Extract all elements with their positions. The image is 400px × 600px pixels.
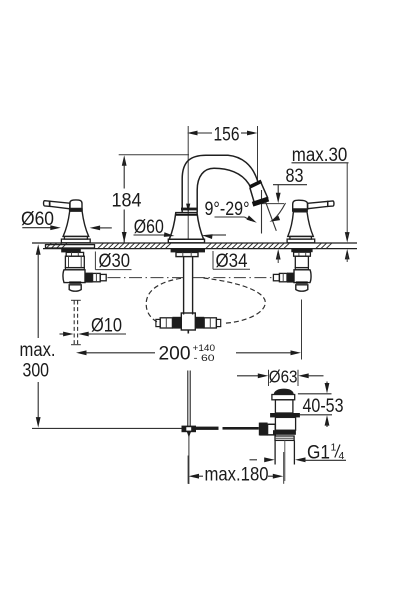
right valve neck xyxy=(294,252,311,256)
tee left hex xyxy=(160,318,172,328)
spout tube left wall xyxy=(183,257,185,315)
spout outlet face xyxy=(253,199,269,204)
left valve block xyxy=(63,270,85,283)
right valve body xyxy=(295,256,308,267)
waste ring 1 xyxy=(273,430,296,435)
linkage white block xyxy=(267,424,275,435)
tee bottom stub xyxy=(187,330,189,334)
dimension max300 xyxy=(20,244,56,427)
angle arc arrow xyxy=(270,203,286,222)
left valve body xyxy=(65,256,84,267)
right valve hose tip xyxy=(273,274,279,280)
svg-text:4: 4 xyxy=(339,450,345,462)
dimension 40-53 xyxy=(298,382,344,428)
angle leader arrow xyxy=(215,216,257,223)
left valve ring xyxy=(65,268,84,270)
svg-text:40-53: 40-53 xyxy=(303,396,344,417)
tee right hex xyxy=(204,318,216,328)
spout centerline xyxy=(186,126,190,240)
left valve neck xyxy=(66,252,83,256)
extension line right valve xyxy=(301,300,303,360)
rod lower line xyxy=(187,432,191,484)
dimension 184 xyxy=(112,155,142,242)
tee left nut xyxy=(172,317,181,329)
svg-text:Ø63: Ø63 xyxy=(269,366,298,386)
reference line bottom xyxy=(32,427,188,429)
spout base plate xyxy=(168,239,204,243)
extension line spout top xyxy=(119,154,189,156)
label dia10 xyxy=(60,316,127,337)
svg-text:Ø10: Ø10 xyxy=(91,316,122,337)
right valve bottom nut xyxy=(296,283,308,292)
svg-text:- 60: - 60 xyxy=(194,353,215,364)
svg-text:G1: G1 xyxy=(307,442,330,463)
svg-text:Ø60: Ø60 xyxy=(21,209,54,230)
label angle 9-29 xyxy=(205,199,250,220)
right valve hose hex xyxy=(279,273,287,281)
left handle base step xyxy=(64,236,87,239)
right handle dark ring xyxy=(292,209,308,212)
svg-text:Ø30: Ø30 xyxy=(99,251,131,272)
right valve block xyxy=(294,270,311,283)
tee right nut xyxy=(195,317,204,329)
label dia60 left xyxy=(21,209,112,231)
deck bottom line xyxy=(43,248,357,250)
dimension dia63 xyxy=(237,366,324,386)
svg-text:max.: max. xyxy=(20,340,56,361)
label G1-1/4 xyxy=(250,442,347,464)
extension line right of 156 xyxy=(257,126,259,185)
deck hatching xyxy=(46,243,332,248)
spout inner curve xyxy=(197,168,250,212)
left valve flange xyxy=(61,249,81,253)
right valve hose nut xyxy=(287,273,294,283)
right valve ring xyxy=(295,268,308,270)
left valve washer xyxy=(46,245,95,248)
hose center line left xyxy=(108,277,184,279)
linkage bar 1 xyxy=(196,427,219,430)
label dia30 xyxy=(95,251,131,272)
mounting stud dashed xyxy=(71,300,81,344)
svg-text:max.180: max.180 xyxy=(205,465,269,486)
tee right tip xyxy=(216,319,220,326)
waste centerline xyxy=(284,440,286,481)
hose center line right xyxy=(193,277,273,279)
waste stem xyxy=(275,400,293,413)
deck top line xyxy=(32,242,357,244)
waste left black block xyxy=(260,423,268,436)
angle vertical ray xyxy=(261,190,263,234)
dimension max180 xyxy=(188,452,284,486)
left handle cap xyxy=(70,200,82,209)
right handle base plate xyxy=(287,239,315,243)
label max.30 xyxy=(292,145,349,166)
waste cap ring xyxy=(272,395,295,400)
spout outer curve xyxy=(182,155,257,212)
angle slanted ray xyxy=(265,199,277,231)
svg-text:1: 1 xyxy=(331,442,337,454)
tee left tip xyxy=(156,319,160,326)
svg-text:200: 200 xyxy=(159,344,191,365)
right handle base step xyxy=(290,236,312,239)
waste body xyxy=(275,417,295,430)
waste seal xyxy=(270,413,300,417)
left hose dashed xyxy=(146,278,181,322)
left valve hose nut xyxy=(85,273,93,283)
right hose dashed xyxy=(204,278,266,323)
left handle base plate xyxy=(61,239,90,243)
spout outlet inner edge xyxy=(250,188,255,204)
label 83 xyxy=(273,166,307,187)
svg-text:156: 156 xyxy=(214,124,240,145)
right valve flange xyxy=(291,249,312,252)
left handle lever xyxy=(50,201,71,209)
waste ring 2 xyxy=(275,436,294,440)
right handle cap xyxy=(293,200,308,209)
spout ring band xyxy=(181,208,197,211)
linkage black block xyxy=(259,423,268,436)
right handle cone xyxy=(288,212,314,237)
waste tailpipe xyxy=(275,440,294,464)
left handle cone xyxy=(63,211,89,236)
right handle lever xyxy=(308,201,328,208)
spout flange xyxy=(171,249,205,253)
label dia60 center xyxy=(134,217,227,239)
dimension 156 top xyxy=(187,124,258,145)
tee body xyxy=(181,313,195,330)
linkage bar 2 xyxy=(223,427,259,430)
left handle lever knob xyxy=(44,201,50,207)
spout base cone xyxy=(169,213,203,240)
spout tube right wall xyxy=(192,257,194,315)
spout outlet outer edge xyxy=(261,182,269,199)
waste left white block xyxy=(268,424,276,435)
waste dome xyxy=(274,389,293,394)
left handle dark ring xyxy=(69,209,83,212)
dimension 83 arrows xyxy=(262,185,284,263)
left valve hose hex xyxy=(93,273,101,281)
svg-text:83: 83 xyxy=(286,166,304,187)
dimension max.30 line xyxy=(345,163,350,262)
svg-text:300: 300 xyxy=(23,361,50,382)
right handle lever knob xyxy=(328,201,334,207)
pull rod xyxy=(188,371,190,428)
dimension 200 xyxy=(76,343,301,365)
spout aerator band xyxy=(250,181,262,187)
left valve hose tip xyxy=(100,274,106,280)
rod joint xyxy=(182,426,197,433)
label dia34 xyxy=(213,251,250,272)
spout shank nut xyxy=(176,252,198,256)
left valve bottom nut xyxy=(69,283,81,292)
svg-text:184: 184 xyxy=(112,191,142,212)
